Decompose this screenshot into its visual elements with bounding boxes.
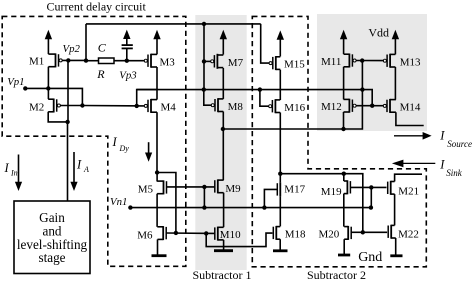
transistor M17	[279, 182, 281, 196]
wire M17 source to M18 drain	[279, 196, 281, 226]
shaded region subtractor 1 column	[195, 15, 246, 270]
transistor M9	[217, 179, 219, 193]
current arrow I_Dy	[148, 142, 150, 154]
rail4 M17 M19 drain row	[280, 173, 344, 175]
node Vn1 rail M17 junction	[262, 205, 266, 209]
node M22 gate junction	[361, 230, 365, 234]
svg-text:Gnd: Gnd	[358, 250, 382, 265]
transistor M11	[348, 54, 350, 68]
wire rail4 to M20 M22 gate row	[344, 174, 387, 233]
Vdd arrow above M11	[343, 37, 345, 54]
Vdd arrow above capacitor	[126, 37, 128, 45]
svg-text:M10: M10	[220, 229, 241, 241]
rail3 output row	[223, 61, 363, 129]
node M2 gate Vp1 junction	[80, 103, 84, 107]
svg-text:Current delay circuit: Current delay circuit	[47, 0, 147, 13]
transistor M20	[347, 226, 349, 240]
svg-text:M8: M8	[228, 101, 244, 113]
transistor M19	[346, 180, 348, 194]
transistor M2	[53, 99, 55, 113]
svg-text:M19: M19	[321, 186, 342, 198]
wire M1 drain down to Vp1 rail and M2	[47, 67, 49, 99]
node rail1 junction	[202, 22, 206, 26]
node Vp2 riser junction	[84, 58, 88, 62]
svg-text:I: I	[76, 158, 82, 172]
transistor M5	[163, 180, 165, 194]
transistor M1	[55, 53, 57, 67]
wire M16 gate L	[260, 90, 269, 107]
wire M5 drain stub	[156, 173, 158, 182]
node rail3 I_Source junction	[341, 127, 345, 131]
svg-text:Sink: Sink	[446, 168, 463, 178]
svg-text:Vdd: Vdd	[368, 26, 389, 40]
svg-text:Dy: Dy	[119, 144, 130, 153]
wire M22 source to ground	[395, 238, 397, 255]
wire rail3 down to M9 drain	[222, 129, 224, 180]
wire M3 source to M4 drain	[156, 67, 158, 100]
wire Vp1 rail	[25, 88, 82, 105]
wire M2 source loop to I_A node	[48, 112, 67, 122]
wire M11 source to M12 drain	[343, 67, 345, 100]
svg-text:stage: stage	[38, 250, 65, 265]
node Vp1 M1-M2 column junction	[46, 86, 50, 90]
current arrow I_In	[18, 155, 20, 184]
transistor M10	[217, 227, 219, 241]
wire M5 drain to M6 gate	[157, 173, 176, 233]
node Vp3	[125, 59, 129, 63]
wire M10 gate drop to M18 gate	[206, 233, 272, 247]
ground M20	[338, 254, 350, 257]
wire M16 source down to subtractor 2	[279, 113, 281, 174]
wire M5 source to M6 drain	[156, 194, 158, 227]
svg-text:M21: M21	[398, 185, 419, 197]
wire M21 source to M22 drain	[394, 194, 396, 225]
node M10 gate junction	[204, 231, 208, 235]
svg-text:A: A	[83, 165, 89, 174]
transistor M8	[217, 98, 219, 112]
transistor M13	[389, 54, 391, 68]
node Vp2 gate junction	[66, 58, 70, 62]
wire M17 drain	[279, 174, 281, 183]
transistor M6	[162, 226, 164, 240]
node M17 drain junction	[278, 172, 282, 176]
wire M9 source to M10 drain	[223, 193, 225, 228]
wire M20 source to ground	[343, 239, 345, 254]
svg-text:M1: M1	[29, 56, 44, 68]
wire M15 source to M16 drain	[279, 70, 281, 100]
resistor R	[86, 60, 99, 62]
node M11 M13 gate junction	[360, 58, 364, 62]
gain and level-shifting stage box	[14, 201, 90, 274]
wire M14 gate to junction	[372, 105, 383, 107]
svg-text:M6: M6	[137, 230, 153, 242]
wire M18 source to ground	[279, 239, 281, 250]
Vn1 rail	[130, 187, 371, 207]
wire M19 drain stub	[343, 174, 345, 181]
svg-text:M11: M11	[321, 56, 341, 68]
wire M9 gate to Vn1 rail	[203, 187, 205, 208]
svg-text:M20: M20	[319, 229, 340, 241]
node Vn1 rail right corner	[369, 205, 373, 209]
wire Vp2 down to I_A node	[67, 60, 69, 122]
node rail2 bias column junction	[360, 87, 364, 91]
svg-text:R: R	[96, 67, 105, 81]
svg-text:Vp3: Vp3	[119, 69, 137, 81]
svg-text:M16: M16	[284, 102, 305, 114]
transistor M21	[390, 181, 392, 195]
node M21 gate junction	[369, 185, 373, 189]
Vdd arrow above M3	[156, 37, 158, 54]
node I_A junction	[65, 120, 69, 124]
node M12 M14 gate junction	[370, 104, 374, 108]
svg-text:Subtractor 2: Subtractor 2	[307, 268, 366, 282]
wire top rail	[86, 23, 261, 25]
wire M6 M10 gate row	[166, 232, 214, 234]
wire M8 gate L	[204, 90, 212, 106]
svg-text:M9: M9	[225, 183, 241, 195]
current arrow I_A	[73, 152, 75, 184]
transistor M12	[348, 99, 350, 113]
node Vp1	[23, 86, 27, 90]
svg-text:M15: M15	[284, 59, 305, 71]
wire M6 source to ground	[157, 239, 159, 254]
ground M18	[273, 249, 288, 252]
transistor M16	[274, 99, 276, 113]
wire M14 source to output	[396, 112, 424, 125]
transistor M3	[150, 54, 152, 68]
wire M2 gate	[60, 105, 82, 107]
wire M11 gate to M13 gate	[356, 60, 383, 62]
wire M1 gate to Vp2 node	[62, 59, 86, 61]
svg-text:M14: M14	[400, 102, 421, 114]
Vdd arrow above M13	[394, 37, 396, 54]
svg-text:In: In	[10, 169, 18, 178]
transistor M7	[216, 54, 218, 69]
wire M4 diode loop to rail2	[137, 90, 157, 106]
wire M10 source to ground	[223, 240, 225, 250]
wire Vp2 rail to top	[85, 24, 87, 61]
wire M21 drain to I_Sink terminal	[395, 174, 422, 181]
ground M22	[390, 254, 402, 257]
ground M6	[152, 254, 167, 257]
current arrow I_Sink	[401, 162, 435, 164]
capacitor C	[126, 49, 128, 61]
svg-text:Vp2: Vp2	[63, 43, 81, 55]
wire R to Vp3 to M3 gate	[114, 60, 146, 62]
wire M13 source to M14 drain	[394, 67, 396, 100]
dashed box current delay circuit	[2, 16, 186, 266]
transistor M15	[275, 56, 277, 70]
svg-text:Source: Source	[447, 139, 472, 149]
node rail2 M8 gate junction	[202, 87, 206, 91]
svg-text:I: I	[439, 129, 445, 143]
wire M12 gate to junction	[356, 105, 372, 107]
node M7 gate junction	[202, 59, 206, 63]
wire M12 source down to I_Source node	[343, 112, 345, 129]
shaded region Vdd output stage	[317, 14, 427, 131]
svg-text:Subtractor 1: Subtractor 1	[193, 268, 252, 282]
svg-text:Vn1: Vn1	[110, 196, 127, 208]
wire M4 source down to M5 drain	[156, 112, 158, 172]
svg-text:I: I	[112, 135, 118, 149]
Vdd arrow above M7	[222, 37, 224, 54]
wire I_A into gain stage	[67, 122, 69, 201]
node Vn1 rail junction	[202, 205, 206, 209]
node M6 gate junction	[174, 231, 178, 235]
svg-text:M13: M13	[400, 56, 421, 68]
dashed box subtractor 2	[252, 16, 426, 266]
wire M2 gate row to M4 gate	[82, 105, 145, 107]
wire M17 gate L to Vn1	[264, 189, 277, 207]
svg-text:M2: M2	[29, 101, 44, 113]
Vdd arrow above M15	[279, 38, 281, 57]
svg-text:C: C	[98, 41, 107, 55]
svg-text:Vp1: Vp1	[7, 76, 24, 88]
transistor M22	[390, 225, 392, 239]
svg-text:M12: M12	[321, 101, 342, 113]
wire rail1 to M15 gate	[261, 24, 269, 63]
Vdd arrow above M1	[47, 37, 49, 54]
svg-text:M22: M22	[398, 228, 419, 240]
node M5 drain junction	[155, 170, 159, 174]
svg-text:M4: M4	[161, 102, 177, 114]
svg-text:M5: M5	[138, 184, 154, 196]
wire M19 M21 gate row	[350, 186, 386, 188]
node Vn1	[128, 205, 132, 209]
transistor M4	[150, 99, 152, 113]
node M4 gate junction	[135, 104, 139, 108]
svg-text:M17: M17	[284, 184, 305, 196]
wire M20 gate stub	[351, 231, 363, 233]
svg-text:M18: M18	[285, 229, 306, 241]
wire M5 M9 gate row	[167, 186, 215, 188]
current arrow I_Source	[394, 135, 425, 137]
svg-text:I: I	[439, 157, 445, 171]
wire M7 gate tap	[204, 60, 211, 62]
ground M10	[214, 249, 233, 252]
wire rail1 drop to M7/M8 column	[203, 24, 205, 90]
transistor M18	[275, 226, 277, 240]
wire M8 source down to rail3	[222, 112, 224, 130]
svg-text:M3: M3	[160, 57, 176, 69]
svg-text:I: I	[4, 161, 10, 175]
svg-text:M7: M7	[228, 57, 244, 69]
wire M7 source to M8 drain	[222, 68, 224, 99]
transistor M14	[389, 99, 391, 113]
rail2 bias row	[137, 90, 373, 106]
node M9 gate junction	[202, 185, 206, 189]
wire M19 source to M20 drain	[343, 194, 345, 227]
node M19 drain junction	[342, 172, 346, 176]
node rail2 M16 gate junction	[258, 87, 262, 91]
node rail3 M8 junction	[221, 127, 225, 131]
